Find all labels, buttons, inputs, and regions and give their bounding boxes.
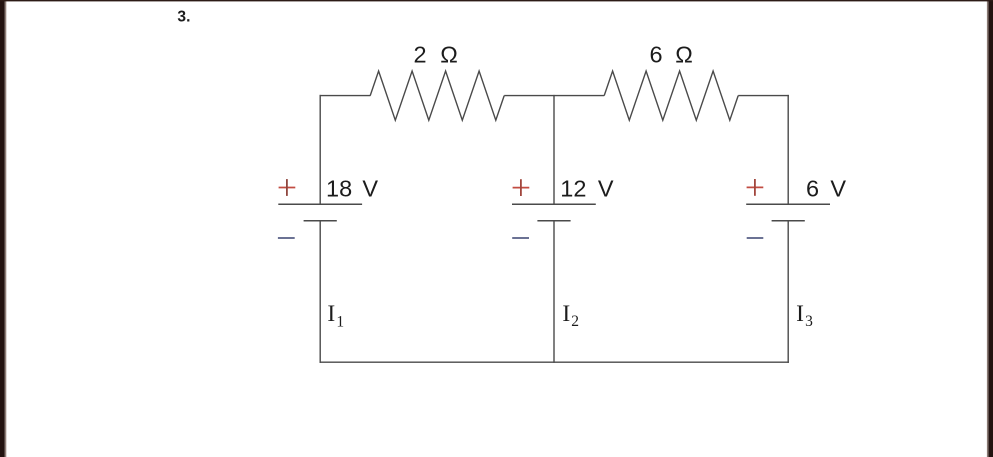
battery V1 negative plate [304,220,337,222]
svg-text:2: 2 [571,313,579,330]
battery V2 minus sign [512,237,529,239]
svg-text:18: 18 [326,176,352,202]
wire right vertical lower [787,221,789,363]
svg-text:V: V [830,176,846,202]
battery V1 minus sign [278,237,295,239]
svg-text:V: V [362,176,378,202]
battery V1 positive plate [278,203,362,205]
svg-text:2: 2 [414,42,427,68]
svg-text:I: I [562,301,570,327]
svg-text:V: V [598,176,614,202]
battery V2 positive plate [512,203,596,205]
battery V3 negative plate [772,220,805,222]
resistor R2 value label 6 Ω [650,42,693,68]
resistor R1 zigzag [370,71,504,120]
wire left vertical upper [319,95,321,204]
wire top-right horizontal [738,95,789,97]
svg-text:I: I [796,301,804,327]
battery V1 label 18 V [326,176,378,202]
wire right vertical upper [787,95,789,204]
wire left vertical lower [319,221,321,363]
battery V3 label 6 V [806,176,846,202]
svg-text:Ω: Ω [675,42,693,68]
wire middle vertical lower [553,221,555,363]
current label I3 [796,301,813,330]
battery V2 label 12 V [560,176,614,202]
battery V3 positive plate [746,203,830,205]
svg-text:12: 12 [560,176,586,202]
battery V2 negative plate [537,220,570,222]
svg-text:I: I [327,301,335,327]
svg-text:6: 6 [650,42,663,68]
wire middle vertical upper [553,95,555,204]
battery V2 plus sign [513,179,530,196]
svg-text:3: 3 [805,313,813,330]
svg-text:3.: 3. [177,9,190,26]
resistor R2 zigzag [604,71,738,120]
battery V3 minus sign [747,237,764,239]
wire bottom horizontal [320,361,789,363]
battery V3 plus sign [747,179,764,196]
battery V1 plus sign [279,179,296,196]
current label I1 [327,301,344,330]
svg-text:6: 6 [806,176,819,202]
svg-text:Ω: Ω [440,42,458,68]
wire top-middle horizontal [504,95,604,97]
svg-text:1: 1 [336,313,344,330]
wire top-left horizontal [320,95,371,97]
current label I2 [562,301,579,330]
resistor R1 value label 2 Ω [414,42,458,68]
